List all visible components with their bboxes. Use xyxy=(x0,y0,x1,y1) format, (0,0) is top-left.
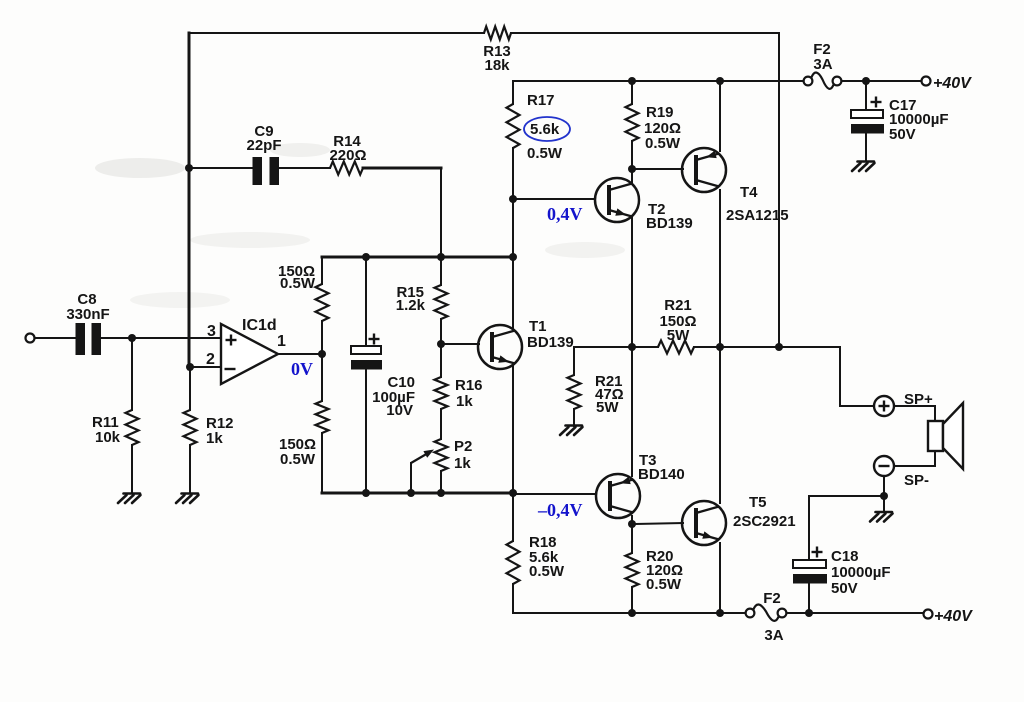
wire T4 emitter lead xyxy=(719,81,721,151)
wire +40V top rail xyxy=(513,80,804,82)
junction C10 bottom xyxy=(362,489,370,497)
resistor R11 xyxy=(126,410,139,445)
resistor R12 xyxy=(184,410,197,445)
wire R19 top lead xyxy=(631,81,633,104)
wire T3 base xyxy=(513,493,596,495)
junction C17 rail xyxy=(862,77,870,85)
resistor R18 xyxy=(507,541,520,584)
wire output node to lower 150R xyxy=(321,354,323,401)
junction T2 collector/R19 xyxy=(628,165,636,173)
wire lower 150R down xyxy=(321,433,323,493)
svg-text:0.5W: 0.5W xyxy=(280,451,316,468)
svg-text:1k: 1k xyxy=(456,393,473,410)
svg-text:5W: 5W xyxy=(596,399,619,416)
svg-text:0V: 0V xyxy=(291,359,313,379)
wire T5 emitter lead xyxy=(719,543,721,613)
wire R18 bottom lead xyxy=(512,584,514,613)
wire input to C8 xyxy=(34,337,75,339)
resistor R19 xyxy=(626,104,639,141)
junction C9 tap xyxy=(185,164,193,172)
svg-text:22pF: 22pF xyxy=(246,137,281,154)
junction P2 wiper xyxy=(407,489,415,497)
svg-text:1: 1 xyxy=(277,333,286,350)
P2 wiper arrow xyxy=(411,450,434,464)
resistor R15 xyxy=(435,285,448,319)
junction R20 bottom rail xyxy=(628,609,636,617)
wire T1 emitter lead xyxy=(512,365,514,493)
wire R17 to T2 base node xyxy=(512,148,514,199)
junction feedback output xyxy=(775,343,783,351)
junction R19 top rail xyxy=(628,77,636,85)
wire bottom rail after fuse xyxy=(786,612,924,614)
junction inverting input xyxy=(186,363,194,371)
transistor T3 xyxy=(596,474,640,518)
wire feedback right vertical to output node xyxy=(778,33,780,347)
wire T4 base xyxy=(632,168,683,170)
wire T2 collector lead xyxy=(631,169,633,182)
ground R12 xyxy=(176,494,199,504)
wire C18 to speaker ground node xyxy=(809,495,884,497)
wire output node to upper 150R xyxy=(321,321,323,354)
capacitor C10 xyxy=(351,346,382,370)
wire T1 base xyxy=(441,343,479,345)
wire R20 top lead xyxy=(631,524,633,553)
wire T1 collector lead xyxy=(512,257,514,329)
wire R11 bottom lead xyxy=(131,445,133,493)
svg-text:10V: 10V xyxy=(386,402,413,419)
svg-text:+40V: +40V xyxy=(934,608,973,625)
svg-text:T5: T5 xyxy=(749,494,767,511)
resistor R16 xyxy=(435,377,448,409)
wire top feedback horizontal left of R13 xyxy=(189,32,484,34)
ground R21 47R xyxy=(560,426,583,436)
wire output to SP+ xyxy=(840,347,874,406)
wire T3 emitter up to output node xyxy=(631,347,633,476)
svg-text:1.2k: 1.2k xyxy=(396,297,426,314)
svg-text:SP-: SP- xyxy=(904,472,929,489)
wire T5 base xyxy=(632,523,683,524)
wire speaker + drop xyxy=(934,406,936,421)
svg-text:R16: R16 xyxy=(455,377,483,394)
wire bias rail y=257 xyxy=(322,256,513,259)
wire bottom rail xyxy=(513,612,746,614)
svg-text:10k: 10k xyxy=(95,429,121,446)
junction driver emitters output xyxy=(628,343,636,351)
capacitor C8 xyxy=(76,323,102,355)
svg-text:T4: T4 xyxy=(740,184,758,201)
svg-text:2SA1215: 2SA1215 xyxy=(726,207,789,224)
svg-text:R19: R19 xyxy=(646,104,674,121)
wire T2 base node down to bias rail node xyxy=(512,199,514,257)
wire C18 top lead xyxy=(808,496,810,560)
ground C17 xyxy=(852,162,875,172)
svg-text:C18: C18 xyxy=(831,548,859,565)
wire lower rail y=493 xyxy=(322,492,513,495)
junction P2 bottom xyxy=(437,489,445,497)
svg-text:–0,4V: –0,4V xyxy=(537,500,583,520)
junction T3 base node rail xyxy=(509,489,517,497)
junction C10 top xyxy=(362,253,370,261)
terminal SP- xyxy=(874,456,894,476)
resistor R13 xyxy=(484,27,511,40)
wire T2 base xyxy=(513,198,595,200)
resistor R21 150R xyxy=(658,341,694,354)
wire output line left of R21 150R xyxy=(574,346,658,348)
resistor R14 xyxy=(330,162,363,175)
svg-text:0.5W: 0.5W xyxy=(529,563,565,580)
wire R16 top lead xyxy=(440,344,442,377)
blue oval around 5.6k xyxy=(524,117,570,141)
svg-text:R17: R17 xyxy=(527,92,555,109)
wire R21 47R top lead xyxy=(573,347,575,375)
terminal +40V top xyxy=(922,77,931,86)
resistor R21 47R xyxy=(568,375,581,409)
wire C8 to op-amp + input xyxy=(101,337,221,339)
potentiometer P2 xyxy=(435,439,448,471)
resistor 150R lower xyxy=(316,401,329,433)
capacitor C18 xyxy=(793,560,827,584)
junction R11/input xyxy=(128,334,136,342)
wire R17 top lead xyxy=(512,81,514,104)
svg-text:1k: 1k xyxy=(206,430,223,447)
capacitor C17 plus xyxy=(871,97,882,108)
wire C17 top lead xyxy=(865,81,867,110)
resistor 150R upper xyxy=(316,284,329,321)
svg-text:3: 3 xyxy=(207,323,216,340)
speaker xyxy=(928,403,963,469)
wire T2 emitter down to output node xyxy=(631,216,633,347)
wire R15 bottom lead xyxy=(440,319,442,344)
svg-text:18k: 18k xyxy=(484,57,510,74)
wire R14 corner down to bias rail xyxy=(440,168,442,257)
junction T5 emitter rail xyxy=(716,609,724,617)
wire R12 top lead xyxy=(189,369,191,410)
junction bias rail right xyxy=(509,253,517,261)
junction R15 top xyxy=(437,253,445,261)
wire C18 bottom lead xyxy=(808,584,810,613)
svg-text:330nF: 330nF xyxy=(66,306,109,323)
terminal +40V bottom xyxy=(924,610,933,619)
wire top rail after fuse xyxy=(841,80,921,82)
wire SP- to ground xyxy=(883,476,885,511)
wire T3 collector lead xyxy=(631,516,633,524)
wire feedback left vertical x=189 xyxy=(188,33,191,369)
capacitor C18 plus xyxy=(812,547,823,558)
svg-text:F2: F2 xyxy=(763,590,781,607)
svg-text:0.5W: 0.5W xyxy=(646,576,682,593)
wire SP+ to speaker xyxy=(894,405,935,407)
svg-text:BD140: BD140 xyxy=(638,466,685,483)
wire R11 top lead xyxy=(131,338,133,410)
wire R19 bottom lead xyxy=(631,141,633,169)
wire C10 top lead xyxy=(365,257,367,346)
svg-text:50V: 50V xyxy=(889,126,916,143)
wire C17 ground lead xyxy=(865,134,867,161)
svg-text:BD139: BD139 xyxy=(646,215,693,232)
wire inverting input xyxy=(190,366,221,368)
wire R16 to P2 xyxy=(440,409,442,439)
svg-text:T1: T1 xyxy=(529,318,547,335)
resistor R17 xyxy=(507,104,520,148)
transistor T4 xyxy=(682,148,726,192)
wire R21 47R bottom lead xyxy=(573,409,575,426)
svg-text:10000µF: 10000µF xyxy=(831,564,891,581)
wire P2 bottom lead xyxy=(440,471,442,493)
wire R12 bottom lead xyxy=(189,445,191,493)
wire C10 bottom lead xyxy=(365,370,367,493)
wire upper 150R to bias rail xyxy=(321,257,323,284)
junction T1 base xyxy=(437,340,445,348)
terminal SP+ xyxy=(874,396,894,416)
capacitor C10 plus xyxy=(369,334,380,345)
junction T2 base node xyxy=(509,195,517,203)
wire R18 top lead xyxy=(512,493,514,541)
wire op-amp output xyxy=(278,353,322,355)
svg-text:BD139: BD139 xyxy=(527,334,574,351)
junction op-amp output node xyxy=(318,350,326,358)
wire speaker - rise xyxy=(934,451,936,466)
wire R20 bottom lead xyxy=(631,587,633,613)
resistor R20 xyxy=(626,553,639,587)
svg-text:220Ω: 220Ω xyxy=(329,147,366,164)
transistor T5 xyxy=(682,501,726,545)
svg-text:0,4V: 0,4V xyxy=(547,204,583,224)
fuse F2 top xyxy=(804,72,842,88)
svg-text:R21: R21 xyxy=(664,297,692,314)
wire R15 top lead xyxy=(440,257,442,285)
svg-text:2SC2921: 2SC2921 xyxy=(733,513,796,530)
capacitor C9 xyxy=(253,157,280,185)
ground SP- xyxy=(870,512,893,522)
wire T5 collector lead xyxy=(719,347,721,503)
svg-text:1k: 1k xyxy=(454,455,471,472)
svg-text:SP+: SP+ xyxy=(904,391,933,408)
svg-text:2: 2 xyxy=(206,351,215,368)
capacitor C17 xyxy=(851,110,884,134)
svg-text:50V: 50V xyxy=(831,580,858,597)
transistor T1 xyxy=(478,325,522,369)
wire T4 collector to output node xyxy=(719,190,721,347)
svg-text:P2: P2 xyxy=(454,438,472,455)
svg-text:3A: 3A xyxy=(813,56,832,73)
wire C9 to R14 xyxy=(280,167,330,169)
fuse F2 bottom xyxy=(746,604,787,620)
svg-text:3A: 3A xyxy=(764,627,783,644)
junction output devices xyxy=(716,343,724,351)
junction T3 collector/R20 xyxy=(628,520,636,528)
wire SP- to speaker xyxy=(894,465,935,467)
wire P2 wiper stub xyxy=(410,463,412,493)
junction C18 bottom rail xyxy=(805,609,813,617)
wire C9 branch left xyxy=(189,167,253,169)
svg-text:0.5W: 0.5W xyxy=(280,275,316,292)
input terminal xyxy=(26,334,35,343)
svg-text:+40V: +40V xyxy=(933,75,972,92)
ground R11 xyxy=(118,494,141,504)
transistor T2 xyxy=(595,178,639,222)
wire top feedback horizontal right of R13 xyxy=(511,32,779,34)
wire R14 to corner xyxy=(363,167,441,170)
wire output line right of R21 150R xyxy=(694,346,840,348)
svg-text:5.6k: 5.6k xyxy=(530,121,560,138)
op-amp IC1d xyxy=(221,324,278,384)
svg-text:0.5W: 0.5W xyxy=(645,135,681,152)
junction T4 emitter rail xyxy=(716,77,724,85)
svg-text:5W: 5W xyxy=(667,327,690,344)
junction SP- ground node xyxy=(880,492,888,500)
svg-text:0.5W: 0.5W xyxy=(527,145,563,162)
svg-text:IC1d: IC1d xyxy=(242,317,277,334)
